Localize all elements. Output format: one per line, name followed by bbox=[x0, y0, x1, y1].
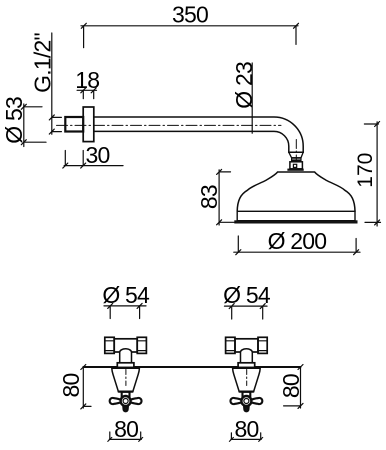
tee bar right cap band 1 bbox=[137, 340, 146, 342]
dimension 18 extension left bbox=[82, 90, 84, 98]
dimension 54 left line bbox=[104, 305, 146, 307]
dimension 80 bottom-right tick a bbox=[229, 437, 233, 441]
bonnet dome neck bbox=[120, 349, 132, 363]
dimension 80 bottom-right riser a bbox=[230, 433, 232, 440]
dimension 200 extension right bbox=[355, 239, 357, 253]
dimension 54 right drop b bbox=[262, 306, 264, 319]
G.1/2 leader line bbox=[51, 33, 53, 134]
dimension 54 left drop a bbox=[109, 306, 111, 319]
svg-text:80: 80 bbox=[235, 416, 259, 442]
tee bar left cap band 1 bbox=[105, 340, 114, 342]
svg-text:Ø 53: Ø 53 bbox=[1, 97, 27, 144]
dimension 80 left tick top bbox=[81, 365, 86, 370]
shower arm bottom outline bbox=[94, 131, 289, 152]
pipe end cap line bbox=[289, 151, 303, 153]
dimension 54 right tick a bbox=[229, 304, 234, 309]
tee bar right cap band 2 bbox=[137, 350, 146, 352]
dimension 80 right tick top bbox=[298, 365, 303, 370]
dimension 54 left tick a bbox=[108, 303, 113, 308]
dimension 83 tick top bbox=[217, 169, 222, 174]
dimension 200 line bbox=[234, 251, 360, 253]
dimension 170 stub top bbox=[364, 123, 378, 125]
ridged collar bbox=[292, 158, 301, 162]
wall flange bbox=[83, 107, 94, 142]
svg-text:Ø 200: Ø 200 bbox=[268, 228, 327, 254]
dimension 53 tick bottom bbox=[21, 140, 26, 145]
dimension 83 tick bottom bbox=[217, 220, 222, 225]
escutcheon body bbox=[112, 368, 140, 391]
stem collar bbox=[122, 392, 130, 397]
dimension 80 left stub bbox=[83, 405, 91, 407]
wall line bbox=[83, 366, 300, 368]
dimension 54 left drop b bbox=[139, 306, 141, 319]
G.1/2 tick bottom bbox=[49, 129, 54, 134]
ridged collar line 2 bbox=[292, 160, 301, 162]
shower head rim bbox=[237, 211, 355, 220]
dimension 30 tick left bbox=[63, 163, 68, 168]
dimension 200 tick right bbox=[354, 250, 359, 255]
cross handle right arm bbox=[130, 398, 141, 404]
svg-text:80: 80 bbox=[114, 416, 138, 442]
dimension 80 bottom-left tick b bbox=[139, 437, 143, 441]
connector base plate bbox=[288, 169, 304, 171]
tee bar middle bbox=[114, 339, 137, 352]
dimension 54 right tick b bbox=[260, 304, 265, 309]
svg-text:Ø 23: Ø 23 bbox=[231, 62, 257, 109]
dimension 53 stub bottom bbox=[24, 141, 46, 143]
G.1/2 stub top bbox=[52, 116, 62, 118]
dimension 350 extension right bbox=[295, 26, 297, 45]
dimension 170 stub bottom bbox=[365, 221, 381, 223]
cross handle left arm bbox=[110, 398, 121, 404]
dimension 53 stub top bbox=[24, 106, 42, 108]
dimension 350 tick right bbox=[294, 23, 299, 28]
svg-text:Ø 54: Ø 54 bbox=[102, 282, 150, 308]
dimension 80 bottom-right riser b bbox=[260, 433, 262, 440]
diameter 23 leader line bbox=[251, 63, 253, 133]
cross handle hub outer bbox=[121, 396, 131, 406]
dimension 170 tick bottom bbox=[375, 220, 380, 225]
head connector nut bbox=[290, 162, 303, 169]
cross handle hub inner bbox=[123, 399, 128, 404]
dimension 200 tick left bbox=[236, 250, 241, 255]
dimension 170 line bbox=[376, 122, 378, 226]
tee bar left cap bbox=[105, 337, 114, 353]
dimension 30 line bbox=[64, 165, 123, 167]
dimension 18 line bbox=[77, 89, 96, 91]
dimension 80 left tick bottom bbox=[81, 404, 86, 409]
svg-text:80: 80 bbox=[58, 374, 84, 398]
dimension 83 line bbox=[218, 170, 220, 225]
dimension 53 tick top bbox=[21, 104, 26, 109]
svg-text:170: 170 bbox=[354, 153, 377, 188]
dimension 30 tick right bbox=[81, 163, 86, 168]
G.1/2 stub bottom bbox=[52, 131, 62, 133]
arm nut bbox=[65, 117, 83, 132]
dimension 80 bottom-left line bbox=[109, 438, 141, 440]
right valve handle instance bbox=[226, 337, 268, 411]
dimension 83 stub top bbox=[219, 171, 230, 173]
dimension 18 tick left bbox=[81, 88, 86, 93]
dimension 80 bottom-left riser a bbox=[109, 432, 111, 439]
dimension 80 bottom-right tick b bbox=[259, 437, 263, 441]
dimension 18 tick right bbox=[91, 88, 96, 93]
tapered connector bbox=[289, 152, 303, 158]
dimension 350 line bbox=[81, 25, 298, 27]
dimension 80 bottom-left riser b bbox=[140, 432, 142, 439]
dimension 54 left tick b bbox=[137, 303, 142, 308]
escutcheon bottom thick edge bbox=[119, 391, 133, 393]
dimension 83 stub bottom bbox=[219, 221, 236, 223]
left valve handle bbox=[105, 337, 147, 411]
tee bar left cap band 2 bbox=[105, 350, 114, 352]
shower head bottom band bbox=[235, 221, 358, 224]
dimension 200 extension left bbox=[237, 236, 239, 252]
dimension 53 line bbox=[23, 104, 25, 147]
dimension 80 right stub bbox=[284, 405, 301, 407]
dimension 80 right tick bottom bbox=[298, 403, 303, 408]
body centerline bbox=[125, 370, 127, 386]
shower arm top outline bbox=[94, 117, 303, 152]
dimension 350 tick left bbox=[81, 23, 86, 28]
connector nut detail square bbox=[293, 164, 296, 167]
svg-text:350: 350 bbox=[172, 2, 208, 28]
dimension 30 extension left bbox=[64, 151, 66, 166]
dimension 54 right line bbox=[225, 305, 268, 307]
dimension 30 extension right bbox=[82, 151, 84, 166]
cross handle bottom spoke bbox=[123, 406, 128, 412]
ridged collar line 1 bbox=[292, 158, 301, 160]
dimension 80 bottom-left tick a bbox=[108, 437, 112, 441]
dimension 350 extension left bbox=[83, 26, 85, 48]
svg-text:Ø 54: Ø 54 bbox=[223, 282, 271, 308]
dimension 170 tick top bbox=[375, 122, 380, 127]
dimension 80 right line bbox=[300, 367, 302, 408]
vertical centerline at bend bbox=[295, 140, 297, 163]
tee bar right cap bbox=[137, 337, 146, 353]
dimension 80 bottom-right line bbox=[231, 438, 261, 440]
dimension 18 extension right bbox=[93, 90, 95, 98]
dimension 54 right drop a bbox=[231, 306, 233, 319]
base plate bbox=[117, 363, 134, 368]
G.1/2 tick top bbox=[49, 115, 54, 120]
dimension 80 left line bbox=[82, 367, 84, 408]
svg-text:83: 83 bbox=[196, 185, 222, 209]
shower head dome bbox=[237, 172, 355, 211]
arm centerline bbox=[57, 124, 282, 126]
svg-text:30: 30 bbox=[86, 142, 110, 168]
